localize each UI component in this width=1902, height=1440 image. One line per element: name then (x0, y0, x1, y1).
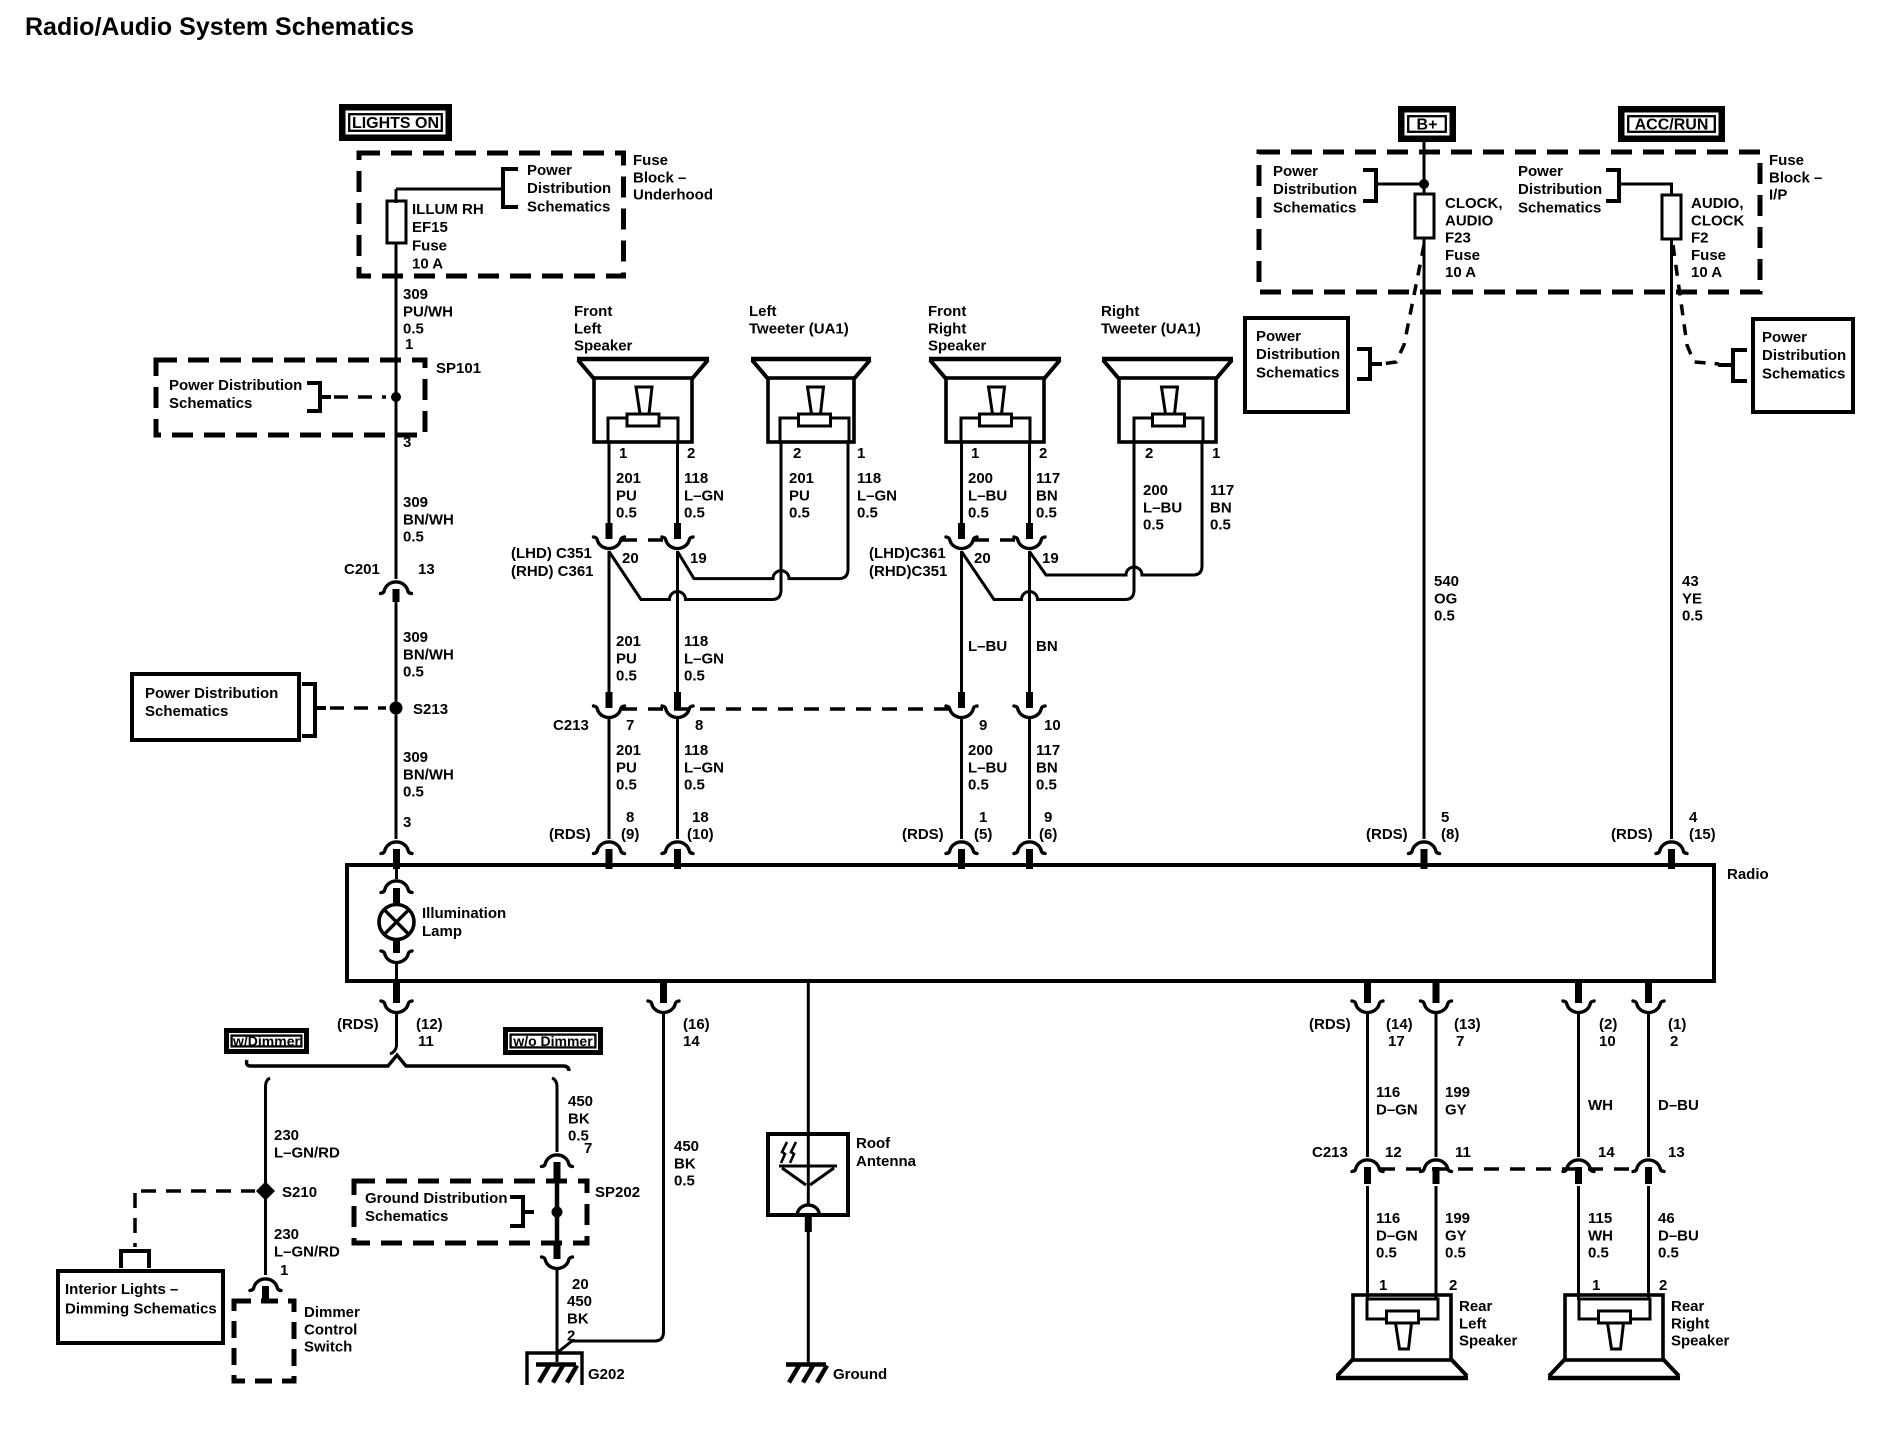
svg-text:17: 17 (1388, 1033, 1405, 1050)
svg-text:450: 450 (568, 1093, 593, 1110)
bracket interior lights (121, 1251, 149, 1268)
connector C213 pin 10 (1026, 692, 1033, 708)
svg-text:201: 201 (616, 742, 641, 759)
svg-text:Schematics: Schematics (1273, 199, 1356, 216)
wire (1028, 719, 1031, 839)
svg-text:EF15: EF15 (412, 219, 448, 236)
svg-text:20: 20 (974, 550, 991, 567)
wire to ground (807, 1232, 810, 1364)
svg-text:L–GN: L–GN (684, 650, 724, 667)
connector SP202 top (542, 1155, 573, 1167)
svg-text:1: 1 (280, 1262, 288, 1279)
svg-text:(15): (15) (1689, 826, 1716, 843)
connector SP202 bottom (554, 1243, 561, 1259)
radio output connector (1575, 983, 1582, 1003)
svg-text:L–GN/RD: L–GN/RD (274, 1243, 340, 1260)
svg-text:PU: PU (789, 487, 810, 504)
svg-text:L–BU: L–BU (968, 638, 1007, 655)
svg-text:LIGHTS ON: LIGHTS ON (352, 115, 439, 132)
svg-text:(RDS): (RDS) (1611, 826, 1653, 843)
svg-text:Distribution: Distribution (1256, 346, 1340, 363)
svg-text:L–BU: L–BU (968, 759, 1007, 776)
svg-text:Right: Right (928, 320, 966, 337)
svg-text:0.5: 0.5 (616, 777, 637, 794)
wire (1435, 1014, 1438, 1157)
bracket (1357, 349, 1370, 379)
svg-text:8: 8 (626, 809, 634, 826)
svg-text:0.5: 0.5 (1682, 608, 1703, 625)
svg-text:Distribution: Distribution (527, 180, 611, 197)
svg-text:0.5: 0.5 (789, 505, 810, 522)
svg-text:PU: PU (616, 759, 637, 776)
radio output connector (393, 983, 400, 1003)
svg-text:10: 10 (1044, 717, 1061, 734)
svg-text:0.5: 0.5 (1210, 517, 1231, 534)
svg-text:L–GN: L–GN (684, 487, 724, 504)
roof antenna box (768, 1134, 848, 1215)
fuse block I/P box (1259, 152, 1760, 292)
svg-text:YE: YE (1682, 590, 1702, 607)
svg-text:0.5: 0.5 (616, 505, 637, 522)
svg-text:Block –: Block – (633, 169, 686, 186)
svg-text:118: 118 (684, 470, 708, 487)
svg-text:S210: S210 (282, 1184, 317, 1201)
connector C361 pin 19 (1026, 523, 1033, 539)
svg-text:(RDS): (RDS) (549, 826, 591, 843)
node S210 (256, 1182, 275, 1201)
connector C213 rear (1352, 1160, 1383, 1172)
svg-text:BN/WH: BN/WH (403, 766, 454, 783)
connector C201 (381, 582, 412, 594)
wire B+ (1423, 142, 1426, 194)
svg-text:2: 2 (793, 445, 801, 462)
svg-text:0.5: 0.5 (684, 505, 705, 522)
svg-text:w/o Dimmer: w/o Dimmer (512, 1033, 593, 1049)
radio box (347, 865, 1714, 981)
power distribution schematics box (S213) (132, 674, 299, 740)
svg-text:117: 117 (1210, 482, 1234, 499)
svg-text:WH: WH (1588, 1227, 1613, 1244)
wire (1647, 1014, 1650, 1157)
svg-text:BK: BK (567, 1310, 589, 1327)
svg-text:0.5: 0.5 (674, 1173, 695, 1190)
radio output connector (660, 983, 667, 1003)
svg-text:Left: Left (1459, 1315, 1487, 1332)
svg-text:309: 309 (403, 494, 428, 511)
svg-text:SP101: SP101 (436, 360, 481, 377)
label box B+ (1401, 109, 1453, 139)
svg-text:0.5: 0.5 (684, 777, 705, 794)
svg-text:ACC/RUN: ACC/RUN (1635, 116, 1709, 133)
svg-text:230: 230 (274, 1127, 299, 1144)
svg-text:0.5: 0.5 (403, 664, 424, 681)
svg-text:12: 12 (1385, 1144, 1402, 1161)
svg-text:230: 230 (274, 1226, 299, 1243)
connector C351 pin 20 (606, 523, 613, 539)
svg-text:10 A: 10 A (1445, 264, 1476, 281)
svg-text:Fuse: Fuse (633, 152, 668, 169)
wire (1647, 1186, 1650, 1300)
connector link dashed (622, 538, 665, 541)
svg-text:F23: F23 (1445, 230, 1471, 247)
power distribution schematics box (B+) (1245, 318, 1348, 412)
power distribution schematics box (ACC) (1753, 319, 1853, 412)
svg-text:Switch: Switch (304, 1339, 352, 1356)
radio output connector (1645, 983, 1652, 1003)
svg-text:116: 116 (1376, 1210, 1400, 1227)
svg-text:Ground: Ground (833, 1366, 887, 1383)
svg-text:(RDS): (RDS) (902, 826, 944, 843)
svg-text:F2: F2 (1691, 230, 1709, 247)
wire 540 OG (1423, 238, 1426, 839)
wire (960, 442, 963, 523)
svg-text:201: 201 (616, 633, 641, 650)
svg-text:BK: BK (674, 1155, 696, 1172)
node SP202 (552, 1207, 563, 1218)
svg-text:19: 19 (690, 550, 707, 567)
wire 117 BN (1028, 551, 1031, 692)
svg-text:PU: PU (616, 487, 637, 504)
svg-text:(12): (12) (416, 1016, 443, 1033)
svg-text:Front: Front (574, 303, 612, 320)
split brace (247, 1055, 570, 1071)
svg-text:117: 117 (1036, 470, 1060, 487)
wire 201 PU (608, 551, 611, 692)
connector C213 pin 7 (606, 692, 613, 708)
svg-text:BK: BK (568, 1110, 590, 1127)
svg-text:Schematics: Schematics (145, 703, 228, 720)
node S213 (390, 702, 403, 715)
svg-text:0.5: 0.5 (968, 505, 989, 522)
svg-text:(LHD)C361: (LHD)C361 (869, 545, 946, 562)
dimmer control switch connector (250, 1279, 281, 1291)
svg-text:(6): (6) (1039, 826, 1057, 843)
svg-text:20: 20 (572, 1276, 589, 1293)
svg-text:118: 118 (857, 470, 881, 487)
svg-text:46: 46 (1658, 1210, 1675, 1227)
node SP101 (391, 392, 401, 402)
wire (676, 719, 679, 839)
svg-text:L–GN: L–GN (684, 759, 724, 776)
svg-text:7: 7 (1456, 1033, 1464, 1050)
splice SP101 box (156, 360, 425, 435)
right tweeter (1102, 357, 1233, 362)
illumination lamp (379, 905, 414, 940)
svg-text:Left: Left (574, 320, 602, 337)
dashed stub to SP101 (334, 395, 386, 399)
svg-text:C213: C213 (1312, 1144, 1348, 1161)
svg-text:7: 7 (626, 717, 634, 734)
rear right speaker (1565, 1295, 1663, 1360)
svg-text:(LHD) C351: (LHD) C351 (511, 545, 592, 562)
svg-text:AUDIO,: AUDIO, (1691, 195, 1744, 212)
svg-text:Distribution: Distribution (1762, 347, 1846, 364)
svg-text:9: 9 (979, 717, 987, 734)
wire (1366, 1186, 1369, 1300)
svg-text:2: 2 (1145, 445, 1153, 462)
radio input connector (1656, 842, 1687, 854)
svg-text:118: 118 (684, 742, 708, 759)
svg-text:Schematics: Schematics (1518, 199, 1601, 216)
svg-text:Fuse: Fuse (1691, 247, 1726, 264)
svg-text:Control: Control (304, 1321, 357, 1338)
svg-text:(RHD) C361: (RHD) C361 (511, 563, 594, 580)
label box w/Dimmer (227, 1031, 307, 1052)
svg-text:Fuse: Fuse (1445, 247, 1480, 264)
radio input connector (1409, 842, 1440, 854)
svg-text:BN: BN (1210, 499, 1232, 516)
svg-text:Radio: Radio (1727, 866, 1769, 883)
svg-text:450: 450 (567, 1293, 592, 1310)
svg-text:11: 11 (418, 1033, 434, 1050)
svg-text:43: 43 (1682, 573, 1699, 590)
svg-text:18: 18 (692, 809, 709, 826)
svg-text:1: 1 (405, 336, 413, 353)
ground G202 bracket (527, 1353, 582, 1385)
svg-text:1: 1 (1592, 1277, 1600, 1294)
svg-text:BN: BN (1036, 759, 1058, 776)
svg-text:0.5: 0.5 (1658, 1245, 1679, 1262)
radio input connector (1014, 842, 1045, 854)
front right speaker (929, 357, 1061, 362)
svg-text:Power: Power (527, 162, 572, 179)
svg-text:0.5: 0.5 (1445, 1245, 1466, 1262)
radio output connector (1433, 983, 1440, 1003)
antenna waves (781, 1142, 787, 1163)
svg-text:BN/WH: BN/WH (403, 646, 454, 663)
svg-text:Tweeter (UA1): Tweeter (UA1) (749, 320, 849, 337)
svg-text:116: 116 (1376, 1084, 1400, 1101)
wire w/o dimmer branch (552, 1078, 557, 1152)
svg-text:C213: C213 (553, 717, 589, 734)
wire 309 PU/WH (395, 243, 398, 579)
svg-text:Ground Distribution: Ground Distribution (365, 1190, 507, 1207)
svg-text:(13): (13) (1454, 1016, 1481, 1033)
svg-text:BN/WH: BN/WH (403, 511, 454, 528)
bracket SP101 (307, 383, 320, 411)
svg-text:3: 3 (403, 814, 411, 831)
ground G202 (536, 1362, 576, 1367)
svg-text:Block –: Block – (1769, 169, 1822, 186)
svg-text:0.5: 0.5 (1376, 1245, 1397, 1262)
svg-text:115: 115 (1588, 1210, 1612, 1227)
wire ACC (1619, 184, 1672, 195)
svg-text:1: 1 (1379, 1277, 1387, 1294)
svg-text:Speaker: Speaker (928, 338, 987, 355)
svg-text:117: 117 (1036, 742, 1060, 759)
dashed reference to power distribution (1381, 245, 1424, 364)
svg-text:CLOCK,: CLOCK, (1445, 195, 1503, 212)
front left speaker (577, 357, 709, 362)
svg-text:C201: C201 (344, 561, 380, 578)
svg-text:Distribution: Distribution (1518, 181, 1602, 198)
svg-text:199: 199 (1445, 1084, 1470, 1101)
svg-text:450: 450 (674, 1138, 699, 1155)
fuse F2 (1662, 195, 1681, 239)
svg-text:Fuse: Fuse (1769, 152, 1804, 169)
fuse EF15 (395, 189, 398, 203)
svg-text:10 A: 10 A (412, 256, 443, 273)
svg-text:1: 1 (857, 445, 865, 462)
svg-text:(14): (14) (1386, 1016, 1413, 1033)
svg-text:Dimmer: Dimmer (304, 1304, 360, 1321)
svg-text:(10): (10) (687, 826, 714, 843)
svg-text:(16): (16) (683, 1016, 710, 1033)
svg-text:7: 7 (584, 1140, 592, 1157)
svg-text:PU/WH: PU/WH (403, 303, 453, 320)
svg-text:0.5: 0.5 (403, 529, 424, 546)
wire 200 L-BU (960, 551, 963, 692)
antenna pin (805, 1215, 812, 1232)
svg-text:0.5: 0.5 (857, 505, 878, 522)
fuse block underhood box (359, 153, 624, 276)
svg-text:(RHD)C351: (RHD)C351 (869, 563, 947, 580)
svg-text:0.5: 0.5 (1143, 517, 1164, 534)
radio output connector (1364, 983, 1371, 1003)
svg-text:0.5: 0.5 (616, 668, 637, 685)
svg-text:19: 19 (1042, 550, 1059, 567)
wire (608, 719, 611, 839)
svg-text:2: 2 (1449, 1277, 1457, 1294)
svg-text:5: 5 (1441, 809, 1449, 826)
wire antenna (807, 981, 810, 1204)
svg-text:SP202: SP202 (595, 1184, 640, 1201)
svg-text:309: 309 (403, 749, 428, 766)
ground (antenna) (786, 1362, 826, 1367)
connector C213 pin 9 (958, 692, 965, 708)
svg-text:(2): (2) (1599, 1016, 1617, 1033)
svg-text:Power Distribution: Power Distribution (169, 377, 302, 394)
connector link dashed (1380, 1167, 1637, 1170)
wire (960, 719, 963, 839)
svg-text:10 A: 10 A (1691, 264, 1722, 281)
bracket ACC (1606, 170, 1619, 201)
svg-text:2: 2 (1659, 1277, 1667, 1294)
dashed stub to S213 (330, 706, 386, 710)
wire (1366, 1014, 1369, 1157)
wire through SP202 (555, 1181, 560, 1243)
svg-text:Power: Power (1518, 163, 1563, 180)
svg-text:B+: B+ (1417, 116, 1438, 133)
svg-text:0.5: 0.5 (1036, 777, 1057, 794)
svg-text:(1): (1) (1668, 1016, 1686, 1033)
svg-text:0.5: 0.5 (403, 784, 424, 801)
svg-text:0.5: 0.5 (968, 777, 989, 794)
svg-text:200: 200 (968, 470, 993, 487)
svg-text:Front: Front (928, 303, 966, 320)
svg-text:13: 13 (418, 561, 435, 578)
svg-text:4: 4 (1689, 809, 1698, 826)
radio input connector (662, 842, 693, 854)
wire (676, 442, 679, 523)
wire to G202 (556, 1270, 559, 1362)
wire to left tweeter pin 2 (609, 442, 781, 600)
connector link dashed (974, 538, 1017, 541)
svg-text:(8): (8) (1441, 826, 1459, 843)
svg-text:Underhood: Underhood (633, 187, 713, 204)
svg-text:13: 13 (1668, 1144, 1685, 1161)
svg-text:Right: Right (1671, 1315, 1709, 1332)
svg-text:201: 201 (789, 470, 814, 487)
interior lights dimming schematics box (58, 1271, 223, 1343)
wire 309 BN/WH (395, 602, 398, 839)
svg-text:118: 118 (684, 633, 708, 650)
svg-text:D–BU: D–BU (1658, 1227, 1699, 1244)
svg-text:Schematics: Schematics (365, 1208, 448, 1225)
svg-text:Power: Power (1273, 163, 1318, 180)
svg-text:(5): (5) (974, 826, 992, 843)
svg-text:OG: OG (1434, 590, 1457, 607)
svg-text:200: 200 (1143, 482, 1168, 499)
svg-text:309: 309 (403, 629, 428, 646)
bracket SP202 (510, 1197, 523, 1226)
svg-text:309: 309 (403, 286, 428, 303)
wire to right tweeter pin 2 (962, 442, 1135, 600)
svg-text:Speaker: Speaker (1459, 1333, 1518, 1350)
svg-text:Power Distribution: Power Distribution (145, 685, 278, 702)
svg-text:10: 10 (1599, 1033, 1616, 1050)
svg-text:(RDS): (RDS) (1309, 1016, 1351, 1033)
svg-text:(RDS): (RDS) (337, 1016, 379, 1033)
svg-text:20: 20 (622, 550, 639, 567)
svg-text:0.5: 0.5 (1434, 608, 1455, 625)
svg-text:L–GN/RD: L–GN/RD (274, 1144, 340, 1161)
wire (396, 188, 503, 191)
svg-text:3: 3 (403, 434, 411, 451)
bracket S213 (302, 684, 315, 736)
svg-text:Rear: Rear (1671, 1298, 1705, 1315)
svg-text:2: 2 (1670, 1033, 1678, 1050)
svg-text:1: 1 (971, 445, 979, 462)
svg-text:D–GN: D–GN (1376, 1227, 1418, 1244)
antenna symbol (779, 1165, 837, 1168)
svg-text:14: 14 (683, 1033, 700, 1050)
wire w/Dimmer branch (266, 1078, 271, 1275)
dashed reference to power distribution (1673, 245, 1719, 364)
svg-text:S213: S213 (413, 701, 448, 718)
svg-text:Illumination: Illumination (422, 905, 506, 922)
connector link dashed (622, 707, 949, 710)
lamp socket connector (381, 881, 412, 893)
left tweeter (751, 357, 871, 362)
svg-text:ILLUM RH: ILLUM RH (412, 201, 484, 218)
svg-text:Tweeter (UA1): Tweeter (UA1) (1101, 320, 1201, 337)
svg-text:Lamp: Lamp (422, 923, 462, 940)
svg-text:14: 14 (1598, 1144, 1615, 1161)
svg-text:1: 1 (619, 445, 627, 462)
splice SP202 box (354, 1181, 587, 1243)
wire (1435, 1186, 1438, 1300)
lamp socket connector (393, 941, 400, 953)
svg-text:GY: GY (1445, 1101, 1467, 1118)
wire (608, 442, 611, 523)
svg-text:Radio/Audio System Schematics: Radio/Audio System Schematics (25, 13, 414, 41)
svg-text:2: 2 (687, 445, 695, 462)
svg-text:540: 540 (1434, 573, 1459, 590)
wire (395, 963, 398, 983)
svg-text:Interior Lights –: Interior Lights – (65, 1281, 178, 1298)
svg-text:0.5: 0.5 (684, 668, 705, 685)
connector C213 rear (1563, 1160, 1594, 1172)
svg-text:Left: Left (749, 303, 777, 320)
svg-text:L–GN: L–GN (857, 487, 897, 504)
svg-text:D–BU: D–BU (1658, 1097, 1699, 1114)
connector C213 pin 8 (674, 692, 681, 708)
connector C213 rear (1633, 1160, 1664, 1172)
svg-text:L–BU: L–BU (1143, 499, 1182, 516)
svg-text:Distribution: Distribution (1273, 181, 1357, 198)
svg-text:0.5: 0.5 (1588, 1245, 1609, 1262)
